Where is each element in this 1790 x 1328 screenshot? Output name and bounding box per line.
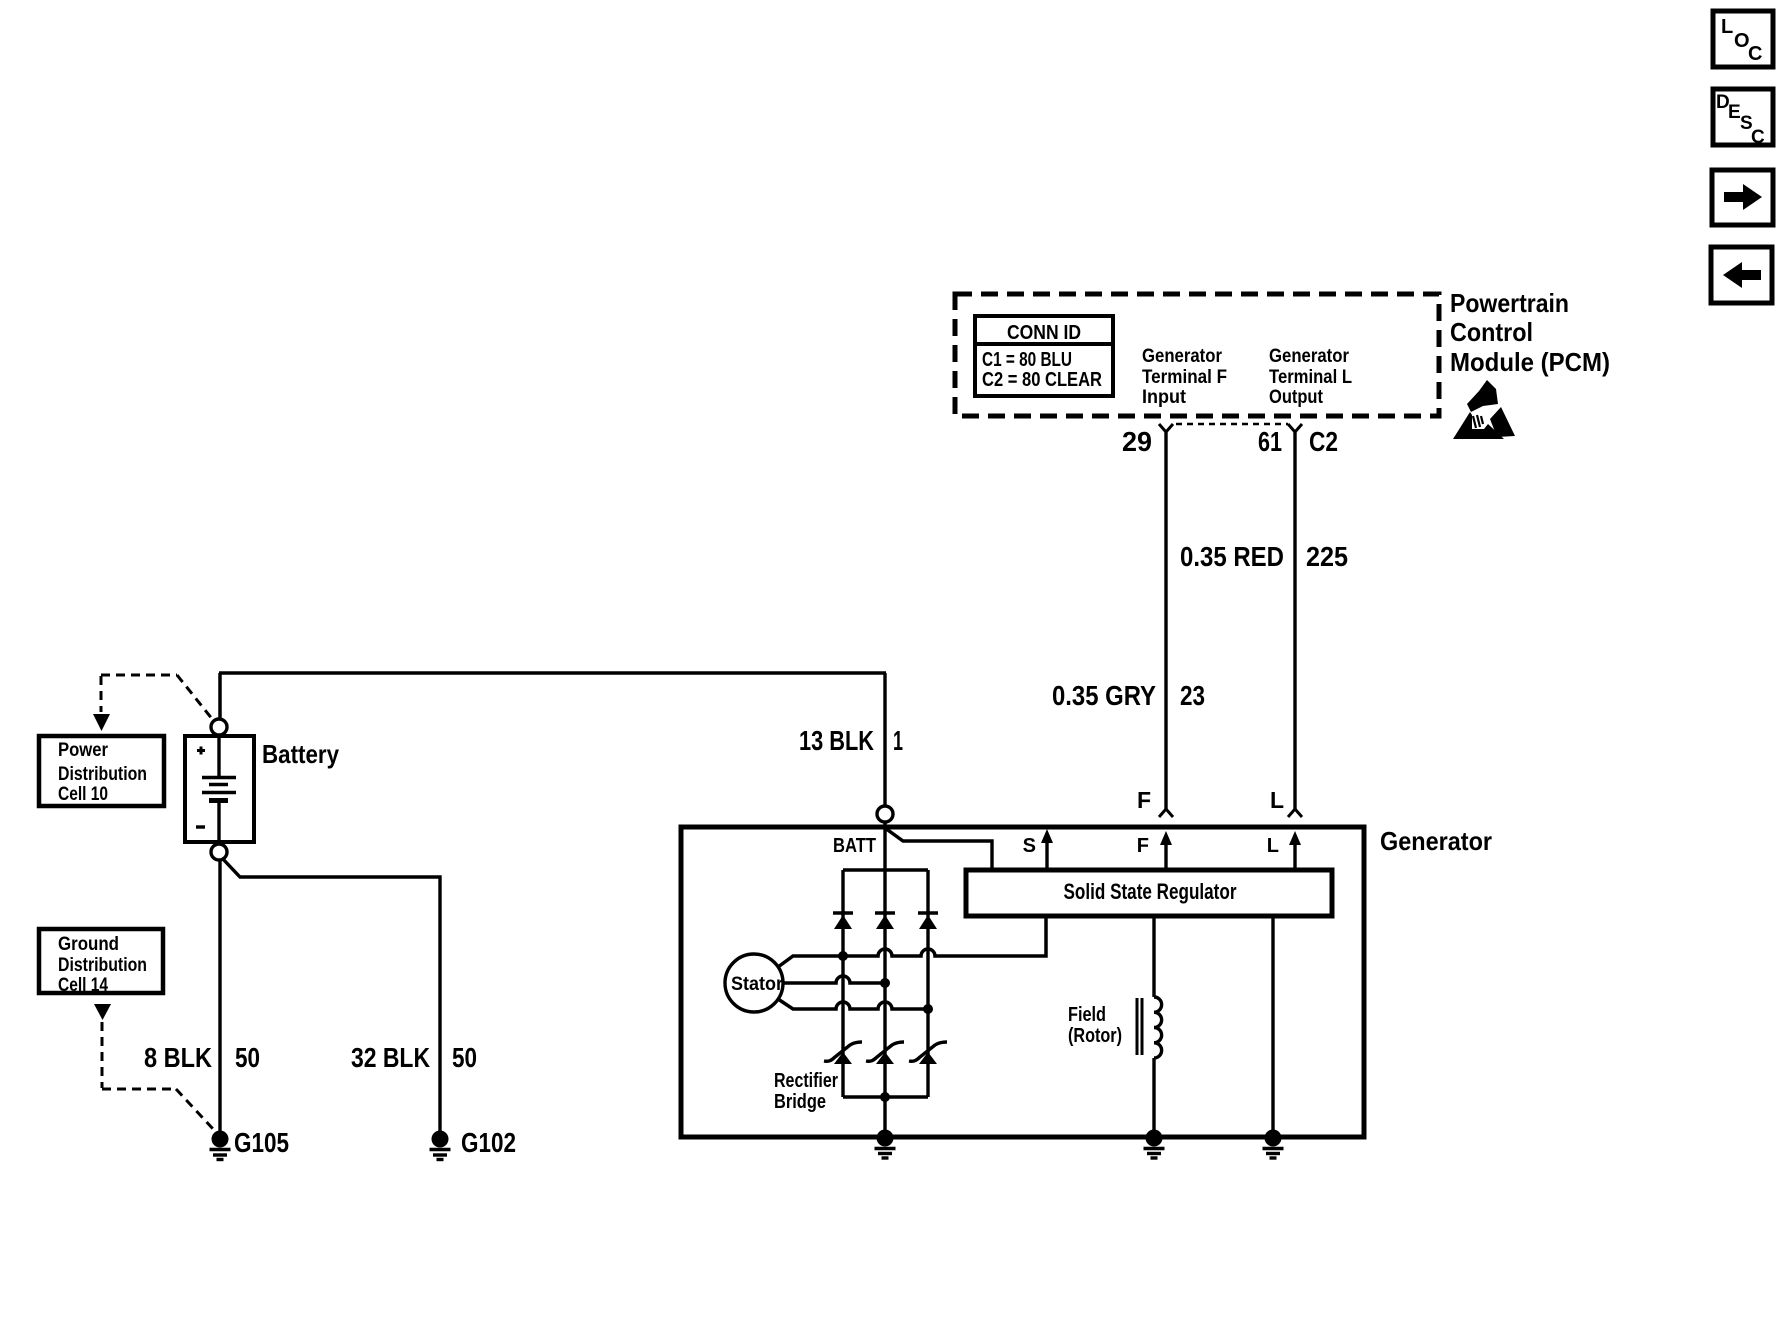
avalanche diode D6 [909, 1042, 947, 1064]
svg-text:Power: Power [58, 740, 109, 761]
svg-text:29: 29 [1122, 426, 1152, 457]
connector C2 dashed line [1176, 423, 1288, 426]
ground G105 [210, 1131, 231, 1160]
CONN ID table [975, 316, 1113, 396]
PCM terminal L column label [1269, 346, 1352, 408]
generator terminal F fork [1159, 809, 1173, 817]
svg-text:C: C [1748, 43, 1762, 65]
svg-text:Field: Field [1068, 1004, 1106, 1026]
svg-text:G105: G105 [234, 1127, 289, 1158]
stator phase 1 wire [778, 916, 1046, 967]
svg-text:Rectifier: Rectifier [774, 1070, 838, 1092]
svg-text:(Rotor): (Rotor) [1068, 1025, 1122, 1047]
connector fork pin 61 [1288, 424, 1302, 432]
svg-text:Terminal F: Terminal F [1142, 367, 1227, 388]
svg-text:13 BLK: 13 BLK [799, 725, 874, 756]
junction phase 2 [880, 978, 890, 988]
wire battery negative to G105 [218, 860, 221, 1131]
BATT terminal circle [877, 806, 893, 822]
solid state regulator U1 [966, 870, 1332, 916]
rectifier bridge label [774, 1070, 838, 1113]
svg-text:23: 23 [1180, 680, 1205, 711]
svg-text:Cell 10: Cell 10 [58, 784, 108, 805]
svg-text:Battery: Battery [262, 739, 339, 769]
PCM dashed box [955, 294, 1439, 416]
junction phase 1 [838, 951, 848, 961]
wire BATT into generator [883, 822, 886, 1138]
svg-text:C2: C2 [1309, 426, 1338, 457]
regulator F arrow [1137, 831, 1172, 870]
wire battery negative to G102 [222, 858, 440, 1131]
battery positive terminal circle [211, 719, 227, 735]
wire down to battery + terminal [218, 673, 222, 719]
svg-text:L: L [1721, 16, 1733, 38]
svg-text:Ground: Ground [58, 934, 119, 955]
junction bottom bus [880, 1092, 890, 1102]
regulator S arrow [1023, 829, 1053, 870]
stator [725, 954, 784, 1012]
ground G102 [430, 1131, 451, 1160]
svg-text:Generator: Generator [1269, 346, 1350, 367]
svg-text:CONN ID: CONN ID [1007, 322, 1081, 344]
wire L: PCM pin 61 to generator L [1293, 432, 1296, 809]
rectifier bridge phase 1 wire [841, 870, 844, 1097]
generator box [681, 827, 1364, 1137]
svg-text:C1 = 80 BLU: C1 = 80 BLU [982, 349, 1072, 371]
junction phase 3 [923, 1004, 933, 1014]
power distribution reference box [39, 736, 164, 806]
svg-text:Generator: Generator [1380, 826, 1492, 856]
field rotor label [1068, 1004, 1122, 1047]
svg-text:L: L [1267, 835, 1279, 857]
DESC button [1713, 89, 1773, 148]
svg-text:Module (PCM): Module (PCM) [1450, 347, 1610, 377]
svg-text:Generator: Generator [1142, 346, 1223, 367]
svg-text:F: F [1137, 787, 1151, 813]
svg-text:Terminal L: Terminal L [1269, 367, 1352, 388]
battery B1 [185, 736, 254, 842]
svg-text:0.35 GRY: 0.35 GRY [1052, 680, 1156, 711]
svg-text:0.35 RED: 0.35 RED [1180, 541, 1284, 572]
stator phase 3 wire [778, 999, 928, 1009]
rectifier bridge phase 3 wire [926, 870, 929, 1097]
ground distribution reference box [39, 929, 163, 996]
svg-text:32 BLK: 32 BLK [351, 1042, 430, 1073]
regulator L arrow [1267, 831, 1301, 870]
svg-text:F: F [1137, 835, 1149, 857]
battery negative terminal circle [211, 844, 227, 860]
PCM terminal F column label [1142, 346, 1227, 408]
svg-text:Distribution: Distribution [58, 764, 147, 785]
wire regulator L to ground [1271, 916, 1274, 1138]
svg-text:Distribution: Distribution [58, 955, 147, 976]
rectifier bridge top bus [843, 868, 928, 871]
field rotor coil [1137, 916, 1162, 1138]
svg-text:C2 = 80 CLEAR: C2 = 80 CLEAR [982, 369, 1102, 391]
svg-text:G102: G102 [461, 1127, 516, 1158]
svg-text:Output: Output [1269, 387, 1324, 408]
svg-text:1: 1 [893, 725, 903, 756]
wire F: PCM pin 29 to generator F [1164, 432, 1167, 809]
diode D1 [833, 913, 853, 929]
stator phase 2 wire [783, 976, 885, 983]
svg-text:Cell 14: Cell 14 [58, 975, 108, 996]
svg-text:L: L [1270, 787, 1284, 813]
generator case ground (rectifier) [875, 1130, 896, 1159]
svg-text:50: 50 [235, 1042, 260, 1073]
avalanche diode D5 [866, 1042, 904, 1064]
svg-text:Bridge: Bridge [774, 1091, 826, 1113]
svg-text:50: 50 [452, 1042, 477, 1073]
diode D2 [875, 913, 895, 929]
ground distribution dashed leader [94, 1004, 214, 1130]
wire battery positive to BATT: horizontal run [219, 671, 886, 675]
svg-text:Solid State Regulator: Solid State Regulator [1064, 879, 1237, 904]
avalanche diode D4 [824, 1042, 862, 1064]
svg-text:E: E [1728, 102, 1741, 123]
svg-text:8 BLK: 8 BLK [144, 1042, 212, 1073]
svg-text:C: C [1751, 127, 1765, 148]
diode D3 [918, 913, 938, 929]
svg-text:225: 225 [1306, 541, 1348, 572]
next-page arrow button [1712, 170, 1773, 225]
ESD symbol [1453, 380, 1515, 439]
wire BATT to regulator [885, 828, 992, 870]
wire down to generator BATT [883, 673, 886, 806]
connector fork pin 29 [1159, 424, 1173, 432]
Powertrain Control Module (PCM) label [1450, 288, 1610, 377]
prev-page arrow button [1711, 247, 1772, 303]
svg-text:Input: Input [1142, 387, 1187, 408]
svg-text:Control: Control [1450, 317, 1533, 347]
generator case ground (field) [1144, 1130, 1165, 1159]
svg-text:S: S [1023, 835, 1036, 857]
rectifier bridge bottom bus [843, 1095, 928, 1098]
LOC button [1713, 11, 1773, 67]
generator terminal L fork [1288, 809, 1302, 817]
generator case ground (L) [1263, 1130, 1284, 1159]
svg-text:61: 61 [1258, 426, 1282, 457]
svg-text:Powertrain: Powertrain [1450, 288, 1569, 318]
power distribution dashed leader [93, 675, 213, 731]
svg-text:Stator: Stator [731, 974, 784, 995]
svg-text:BATT: BATT [833, 835, 876, 857]
